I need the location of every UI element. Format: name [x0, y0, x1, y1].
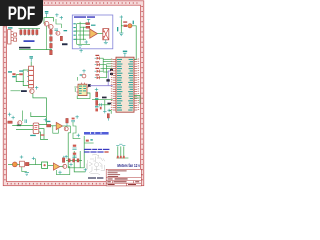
resistor ladder R11 [50, 50, 53, 55]
label LCD16X2 [24, 40, 35, 42]
diode D3 [95, 68, 100, 73]
wire [56, 19, 61, 28]
svg-text:PDF: PDF [8, 2, 36, 23]
optocoupler U3 [33, 123, 39, 134]
ic U1 pin numbers right [138, 59, 139, 110]
transistor Q1 [44, 21, 49, 26]
resistor R16 [68, 159, 70, 162]
ic U1 right pins [134, 59, 137, 110]
transistor Q7 [64, 127, 68, 131]
pin cross [84, 168, 87, 172]
ground [25, 173, 29, 176]
wire right of U1 [134, 97, 138, 99]
pin cross [103, 110, 106, 114]
motor M1 [103, 29, 109, 40]
pin cross [8, 113, 11, 117]
wire [8, 164, 12, 166]
frame outer border [3, 1, 144, 186]
wire [17, 164, 19, 166]
wire [121, 25, 123, 27]
resistor R25 below U1 [107, 109, 111, 121]
pin label [73, 23, 75, 40]
red bit [100, 107, 102, 110]
diode D6 [123, 21, 127, 27]
sketch caption [88, 177, 103, 178]
wire [39, 117, 47, 125]
net label dark [17, 125, 21, 127]
ic U1 left pins [113, 59, 116, 110]
net label dark TX [110, 73, 113, 75]
diode D4 [95, 74, 100, 79]
supply VCC3 [87, 19, 90, 22]
resistor R17 [73, 159, 75, 162]
transistor Q3 [56, 31, 60, 35]
resistor R1 [14, 33, 17, 36]
connector grounds cluster [116, 144, 128, 158]
diode D2 [95, 61, 100, 66]
resistor R24 [96, 100, 98, 105]
wire [68, 126, 70, 133]
resistor R19 [25, 162, 29, 165]
wire [12, 125, 33, 127]
capacitor C6 [72, 153, 76, 158]
resistor R20 [62, 156, 64, 163]
label teal [133, 21, 134, 25]
title block [106, 169, 141, 186]
ground [104, 40, 108, 44]
wire [19, 27, 41, 29]
frame band fill [3, 1, 144, 186]
net label dark RX [110, 69, 113, 71]
supply VCC1 [45, 11, 49, 17]
wire [23, 70, 28, 86]
frame bottom ticks [7, 183, 140, 185]
bus purple [90, 71, 113, 86]
wire [39, 132, 48, 139]
relay K1 [27, 66, 34, 88]
wire loop inner [74, 151, 85, 172]
wire [22, 167, 27, 172]
ic U2 [76, 83, 88, 96]
pin cross [44, 118, 47, 122]
wire [63, 125, 71, 127]
ic U1 body [116, 57, 134, 112]
wire long [92, 99, 113, 101]
capacitor C7 [100, 103, 102, 106]
label teal [41, 134, 45, 135]
resistor ladder R8 [50, 30, 53, 37]
ic U1 left pin names [117, 59, 122, 111]
supply cross TR [120, 15, 123, 19]
capacitor C1 [55, 29, 59, 30]
pin cross [58, 171, 61, 175]
resistor R13 [8, 121, 12, 123]
pin cross [75, 115, 78, 119]
resistor R22 [86, 26, 90, 28]
label value [91, 25, 96, 26]
note text blue line1 [84, 149, 109, 150]
ground [119, 33, 123, 36]
lamp LP2 [128, 24, 132, 28]
pin cross [77, 134, 80, 138]
wire [31, 112, 47, 116]
resistor R18 [77, 159, 79, 162]
diode D1 [95, 55, 100, 60]
connector J1 [8, 27, 14, 44]
wire [66, 159, 82, 161]
red bits [95, 108, 98, 111]
op-amp A3 [53, 163, 59, 170]
wire [16, 74, 19, 76]
frame right ticks [141, 6, 143, 181]
resistor ladder R9 [50, 37, 53, 44]
wire [73, 122, 80, 139]
capacitor C2 [12, 73, 16, 77]
wire [98, 104, 110, 106]
net label dark [102, 97, 107, 99]
PDF badge [0, 0, 43, 26]
transistor Q5 [30, 89, 34, 93]
frame left ticks [4, 6, 6, 181]
op-amp A2 [56, 122, 62, 129]
resistor R15 [66, 118, 68, 126]
op-amp A1 [90, 29, 98, 38]
wire [33, 93, 47, 116]
transistor Q2 [49, 25, 54, 30]
wire [51, 125, 56, 127]
pin cross [85, 40, 88, 44]
net label dark [107, 103, 111, 105]
wire [97, 33, 102, 35]
label teal [30, 135, 36, 136]
wire under U2 [77, 93, 90, 99]
frame top ticks [7, 2, 140, 4]
wire [79, 151, 81, 168]
label teal [95, 106, 98, 107]
ic U1 right pin names [128, 59, 133, 111]
wire stub below box [79, 49, 82, 53]
resistor R6 [32, 28, 34, 36]
pin cross [95, 88, 98, 92]
section box S1 [72, 15, 113, 49]
label teal [95, 98, 98, 99]
wire top right of U1 [134, 58, 136, 60]
wire [127, 25, 128, 27]
resistor R23 [96, 92, 98, 97]
wire [104, 100, 106, 111]
wire [132, 26, 136, 60]
transistor Q8 [63, 164, 67, 168]
wire [30, 62, 32, 66]
resistor R5 [28, 28, 30, 36]
label teal [64, 30, 68, 31]
pin cross [20, 155, 23, 158]
resistor R4 [24, 28, 26, 36]
capacitor C5 [72, 145, 76, 150]
net label MIC [62, 43, 68, 45]
resistor R14 [47, 121, 51, 127]
resistor R2 [14, 38, 17, 41]
resistor R12 [60, 36, 62, 41]
wire [120, 20, 122, 33]
wire [29, 164, 42, 166]
capacitor C3 [25, 119, 27, 123]
resistor R7 [36, 28, 38, 36]
wire feedback [56, 167, 69, 175]
resistor R21 [86, 23, 90, 25]
section title text [74, 16, 95, 17]
label teal [8, 71, 12, 72]
net label DISPLAY [19, 47, 31, 49]
transistor Q6 [18, 121, 22, 125]
svg-text:Motors fan 12 v: Motors fan 12 v [117, 163, 140, 168]
wire [22, 111, 24, 122]
pin cross [60, 16, 63, 20]
supply VCC4 above U1 [123, 51, 127, 58]
wire [16, 129, 33, 131]
lamp LP1 [12, 162, 17, 167]
wire [35, 159, 37, 165]
wire [11, 90, 21, 92]
frame inner border [7, 5, 141, 181]
wire [44, 18, 54, 24]
pin cross [11, 116, 14, 120]
wire [16, 75, 24, 82]
capacitor C4 [71, 118, 75, 122]
wire feedback [53, 126, 59, 133]
hyperlink text [84, 132, 109, 135]
note text blue line2 [84, 151, 109, 152]
pin cross [55, 13, 58, 17]
pin cross [32, 157, 35, 160]
wire loop left [68, 133, 84, 168]
net label dark U2 [88, 84, 91, 87]
ground [78, 46, 81, 47]
wire [19, 49, 52, 51]
sketch drawing [86, 154, 104, 174]
transistor Q4 [75, 69, 86, 92]
wire [39, 129, 44, 140]
ic U1 pin numbers left [111, 59, 112, 110]
resistor ladder R10 [50, 43, 53, 50]
wire [46, 26, 48, 50]
bridge B1 [42, 162, 48, 168]
supply VCC2 [29, 56, 33, 62]
title block texts [107, 171, 139, 185]
pin cross [69, 163, 72, 167]
net label MIC2 [21, 90, 27, 92]
pin cross [64, 155, 67, 159]
resistor R3 [20, 28, 22, 36]
wire [48, 165, 54, 167]
wire mesh [75, 22, 90, 45]
wire [60, 166, 63, 168]
switch S2 [20, 161, 25, 167]
CONTENT [8, 11, 142, 186]
wire [74, 86, 76, 88]
diode D5 [19, 70, 23, 75]
small parts under link [85, 139, 94, 143]
net label dark [106, 79, 109, 81]
label teal vertical [117, 27, 118, 31]
wire mesh diodes to IC [99, 58, 112, 77]
pin cross [35, 86, 38, 90]
wire right of U1 [134, 96, 140, 104]
